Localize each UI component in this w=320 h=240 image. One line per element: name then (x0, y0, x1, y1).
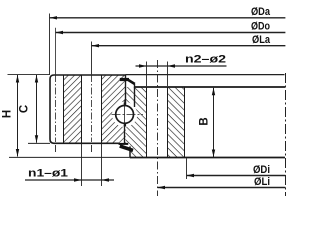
inner ring bore line (184, 87, 186, 158)
dimension B (199, 88, 216, 157)
n2 hole walls (146, 87, 148, 158)
svg-text:H: H (2, 110, 14, 118)
ball crosshair vertical (124, 100, 126, 130)
outer ring hatch (63, 75, 126, 143)
svg-text:n1–ø1: n1–ø1 (28, 167, 68, 179)
dimension ØDo (56, 20, 286, 34)
svg-text:ØDa: ØDa (251, 6, 271, 18)
outer ring outline (50, 75, 126, 143)
n1 hole centerline (91, 42, 93, 75)
svg-text:n2–ø2: n2–ø2 (185, 53, 226, 65)
tooth root line (63, 75, 65, 143)
raceway contact marks (124, 103, 126, 106)
svg-text:ØDo: ØDo (251, 20, 270, 32)
svg-text:ØLi: ØLi (254, 176, 270, 188)
dimension ØLa (92, 34, 286, 47)
dimension C (19, 75, 50, 143)
dimension ØLi (158, 176, 286, 189)
inner ring hatch (126, 87, 185, 158)
ball pocket (112, 102, 137, 127)
svg-text:B: B (199, 117, 211, 125)
ball (116, 106, 134, 124)
svg-text:ØDi: ØDi (253, 164, 270, 176)
inner ring top face (135, 86, 286, 88)
n2 hole centerline / ØLi extension (157, 60, 159, 196)
svg-text:ØLa: ØLa (252, 34, 271, 46)
ring split above ball (125, 75, 127, 104)
inner ring left edge below seal (129, 146, 131, 157)
dimension n2-ø2 (136, 53, 227, 86)
inner ring left edge above ball (134, 84, 136, 107)
ring split below ball (124, 125, 126, 144)
gear pitch line (55, 28, 57, 75)
ball crosshair horizontal (112, 113, 144, 115)
top face extension line to axis (8, 74, 51, 76)
top seal (120, 80, 135, 85)
svg-text:C: C (19, 105, 31, 113)
axis centerline (285, 73, 287, 196)
dimension ØDa (50, 6, 286, 74)
n1 hole walls (81, 75, 83, 143)
seal notch white (112, 144, 130, 157)
dimension n1-ø1 (25, 144, 114, 186)
dimension ØDi (187, 158, 286, 179)
bottom seal (119, 143, 133, 150)
inner ring bottom face (130, 157, 285, 159)
dimension H (2, 75, 130, 157)
